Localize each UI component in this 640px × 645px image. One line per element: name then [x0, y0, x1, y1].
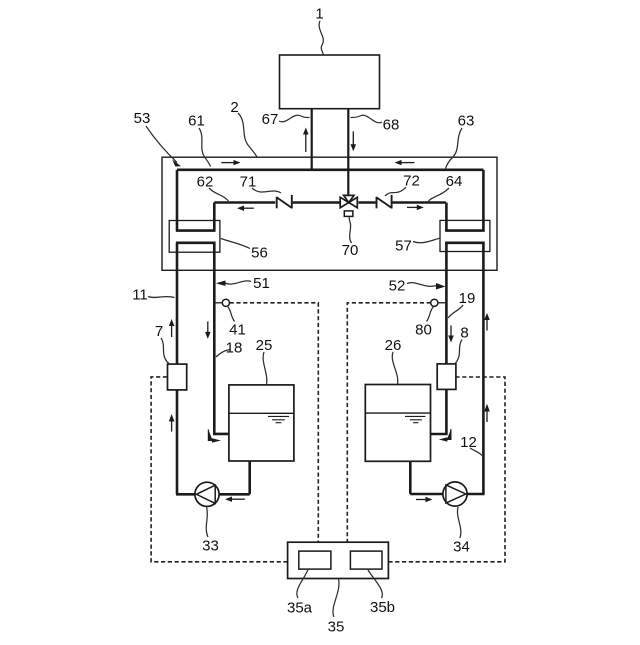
leader 63 [445, 128, 462, 169]
leader 57 [413, 238, 439, 242]
leader 8 [455, 340, 462, 364]
svg-text:18: 18 [226, 339, 243, 356]
flow arrow tank 26 inlet (L, leftwards) [439, 429, 451, 442]
dashed enclosure left (indoor unit boundary) [151, 303, 318, 562]
svg-text:61: 61 [188, 112, 205, 129]
flow arrow pipe 68 down [351, 131, 357, 151]
wire tank 26 outlet to pump 34 [410, 461, 484, 494]
svg-text:35b: 35b [370, 599, 395, 616]
leader 62 [209, 188, 229, 201]
svg-text:53: 53 [134, 110, 151, 127]
leader 26 [392, 352, 398, 384]
svg-text:25: 25 [256, 337, 273, 354]
valve 72 [377, 195, 392, 209]
leader 72 [385, 187, 406, 196]
leader 7 [161, 338, 169, 364]
leader 64 [428, 188, 449, 202]
svg-text:71: 71 [240, 173, 257, 190]
leader 68 [351, 115, 383, 122]
svg-text:34: 34 [453, 538, 470, 555]
svg-text:35a: 35a [287, 599, 313, 616]
heat exchanger 57 [440, 220, 490, 251]
flow arrow top line right (leftwards) [395, 160, 415, 165]
component box 8 [437, 364, 456, 390]
flow arrow pipe 67 up [303, 128, 309, 153]
leader 2 [238, 113, 257, 157]
svg-text:70: 70 [342, 242, 359, 259]
wire pipe 52/19 right inner down to tank 26 [431, 242, 447, 434]
leader lines [146, 21, 482, 617]
leader 41 [228, 307, 235, 322]
leader arrowhead 52 [436, 283, 446, 290]
wire pipe 11/7 left outer down (pump 33 to line) [176, 242, 179, 494]
wire left inner riser upper (to exchanger 56) [213, 203, 216, 232]
leader 80 [427, 307, 434, 322]
svg-text:41: 41 [229, 321, 246, 338]
flow arrow pipe 12 upper up [484, 313, 490, 331]
leader 70 [349, 217, 351, 243]
svg-text:35: 35 [328, 618, 345, 635]
leader 71 [252, 188, 281, 193]
wire left outer riser (pipes 61/62 upper) [176, 170, 179, 232]
flow arrow valve line right (rightwards) [407, 205, 424, 210]
flow arrow pipe 11 upper up [169, 319, 175, 337]
sensor circle 41 [216, 302, 223, 304]
svg-text:11: 11 [132, 286, 148, 303]
tank 26 [365, 385, 430, 462]
wire right outer riser upper [482, 170, 485, 231]
valve 71 [277, 195, 292, 209]
flow arrow valve line left (leftwards) [237, 206, 254, 211]
flow arrow pipe 12 lower up [484, 404, 490, 422]
flow arrow pipe 19 down [448, 326, 454, 343]
svg-text:57: 57 [395, 237, 412, 254]
flow arrow pipe 11 lower up [169, 414, 175, 432]
svg-text:68: 68 [383, 116, 400, 133]
reference numerals [132, 5, 477, 635]
svg-text:8: 8 [460, 324, 468, 341]
wire pipe 51/18 left inner down to tank 25 [214, 242, 229, 434]
leader 25 [263, 352, 267, 385]
svg-text:1: 1 [315, 5, 323, 22]
outer casing rect 53 [162, 157, 497, 270]
leader arrowhead 53 [172, 160, 181, 167]
wire top refrigerant line 61-63 [177, 169, 483, 172]
wire tank 25 outlet to pump 33 [176, 461, 250, 494]
svg-text:26: 26 [385, 337, 402, 354]
svg-text:64: 64 [446, 173, 463, 190]
controller unit 35 [288, 542, 389, 578]
svg-text:12: 12 [460, 434, 477, 451]
dashed enclosure right (indoor unit boundary) [347, 303, 505, 562]
leader arrowhead 51 [216, 281, 226, 287]
svg-text:33: 33 [202, 537, 219, 554]
pump 34 [443, 482, 467, 506]
leader 67 [279, 115, 310, 122]
heat exchanger 56 [169, 221, 220, 253]
flow arrow pump 34 inlet (rightwards) [416, 497, 432, 502]
leader 35a [297, 570, 308, 598]
wire pipe 68 (from unit 1) [347, 109, 349, 196]
valve 70 actuator box [344, 211, 353, 217]
leader 52 with arrow [407, 283, 437, 287]
svg-text:80: 80 [415, 321, 432, 338]
svg-text:62: 62 [197, 173, 214, 190]
flow arrow top line left (rightwards) [221, 160, 240, 165]
leader 53 [146, 126, 177, 163]
leader 51 with arrow [225, 281, 251, 284]
leader 35b [368, 570, 382, 598]
wire valve line 62-64 [214, 201, 446, 204]
svg-text:56: 56 [251, 244, 268, 261]
leader 19 [448, 305, 463, 318]
leader 34 [457, 507, 460, 538]
pump 33 [195, 482, 219, 506]
leader 12 [470, 448, 482, 456]
flow arrow pump 33 inlet (leftwards) [225, 497, 245, 502]
wire pipe 12 right outer down (pump 34 to line) [482, 242, 485, 494]
leader 35 [333, 579, 339, 617]
leader 1 [319, 21, 323, 55]
svg-text:52: 52 [389, 277, 406, 294]
controller 35a [299, 551, 331, 569]
leader 18 [216, 350, 230, 358]
wire pipe 67 (to unit 1) [311, 109, 313, 171]
svg-text:67: 67 [262, 111, 279, 128]
unit 1 box [280, 55, 380, 109]
sensor circle 80 [438, 302, 445, 304]
svg-text:63: 63 [458, 112, 475, 129]
svg-text:7: 7 [155, 323, 163, 340]
leader 11 [148, 297, 175, 298]
leader 33 [206, 507, 208, 537]
leader 56 [221, 239, 250, 249]
svg-text:19: 19 [459, 290, 476, 307]
svg-text:72: 72 [403, 172, 420, 189]
flow arrow pipe 18 down [205, 321, 211, 339]
tank 25 [229, 385, 294, 461]
controller 35b [350, 551, 382, 569]
leader 61 [199, 128, 211, 167]
wire right inner riser upper (to exchanger 57) [445, 203, 448, 232]
svg-text:51: 51 [253, 275, 270, 292]
svg-text:2: 2 [230, 99, 238, 116]
three-way valve 70 [340, 195, 357, 207]
flow arrow tank 25 inlet (L, rightwards) [208, 430, 221, 443]
component box 7 [168, 364, 187, 390]
